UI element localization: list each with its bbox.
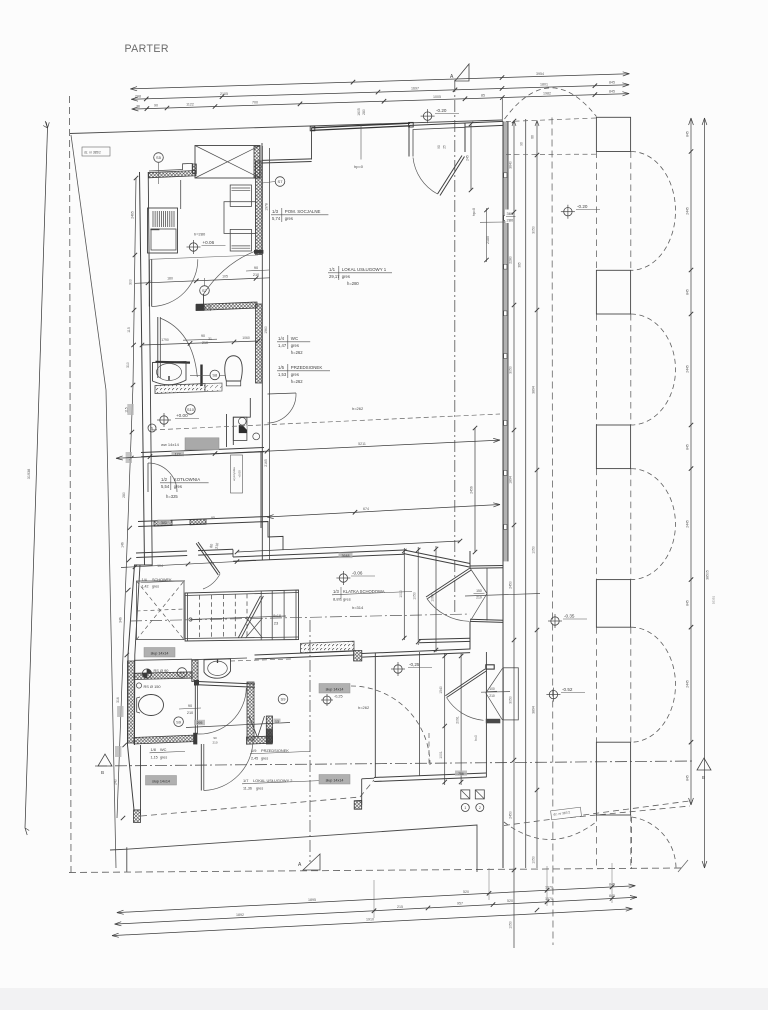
svg-text:h=314: h=314 xyxy=(352,605,364,610)
svg-text:gres: gres xyxy=(256,787,263,791)
survey marker +0.06 in POM xyxy=(189,243,197,251)
svg-text:5211: 5211 xyxy=(358,442,366,446)
svg-text:h=0: h=0 xyxy=(474,735,478,741)
svg-text:2465: 2465 xyxy=(130,211,134,219)
shaft top line xyxy=(134,659,192,660)
svg-text:29,17: 29,17 xyxy=(329,274,340,279)
svg-text:104: 104 xyxy=(157,564,163,568)
bottom dim chain 3 xyxy=(112,909,632,936)
svg-text:115: 115 xyxy=(127,327,131,333)
svg-text:h=262: h=262 xyxy=(291,379,303,384)
S9b symbol przedsionek xyxy=(278,694,288,704)
svg-text:1/9: 1/9 xyxy=(251,748,256,753)
bottom-left building corner hatch xyxy=(134,810,141,823)
svg-text:88: 88 xyxy=(531,135,535,139)
svg-text:1/2: 1/2 xyxy=(161,477,168,482)
svg-text:1050: 1050 xyxy=(509,921,513,929)
corridor header line xyxy=(150,255,258,259)
svg-text:2445: 2445 xyxy=(686,207,690,215)
dim label 302 xyxy=(158,520,171,525)
svg-text:90: 90 xyxy=(254,266,258,270)
svg-text:słup 14x14: słup 14x14 xyxy=(151,652,169,656)
svg-text:2091: 2091 xyxy=(456,716,460,724)
entrance alcove top-right xyxy=(409,123,465,157)
building left outer wall xyxy=(128,172,145,810)
svg-text:520: 520 xyxy=(507,899,513,903)
big room vertical dim xyxy=(474,428,476,552)
arcade dashed verticals between pillars xyxy=(595,152,597,271)
section marker B right xyxy=(697,758,711,770)
svg-text:h=262: h=262 xyxy=(358,705,370,710)
svg-text:90: 90 xyxy=(201,334,205,338)
S9 symbol xyxy=(174,717,184,727)
S7 symbol lower xyxy=(200,286,210,296)
svg-text:1050: 1050 xyxy=(532,546,536,554)
svg-text:1982: 1982 xyxy=(543,92,551,96)
svg-text:słup 14x14: słup 14x14 xyxy=(152,780,170,784)
svg-text:302: 302 xyxy=(161,521,167,525)
building top wall left hatched xyxy=(149,171,197,178)
svg-text:845: 845 xyxy=(686,289,690,295)
svg-text:1050: 1050 xyxy=(532,856,536,864)
svg-text:1,47: 1,47 xyxy=(278,343,287,348)
svg-text:WC: WC xyxy=(291,336,298,341)
svg-text:2445: 2445 xyxy=(686,680,690,688)
window label 360/280 right xyxy=(505,210,517,224)
small circle marker -0.25b xyxy=(323,696,331,704)
left wall dimension chain xyxy=(117,178,136,818)
section line A xyxy=(454,80,456,612)
door 2 arc xyxy=(204,250,258,294)
drain symbol xyxy=(142,669,151,678)
svg-text:-0,25: -0,25 xyxy=(334,695,343,699)
right wall white mullion notches xyxy=(504,173,507,178)
survey marker +-0.00 przedsionek xyxy=(160,416,168,424)
svg-text:2105: 2105 xyxy=(220,92,228,96)
dim label 172 xyxy=(172,451,185,456)
arcade inner face line xyxy=(525,119,527,868)
svg-text:dz. nr 385/2: dz. nr 385/2 xyxy=(84,151,101,155)
lokal2 bottom dashed line xyxy=(141,797,360,816)
przedsionek 1/5 left door xyxy=(157,317,159,378)
svg-text:316: 316 xyxy=(116,697,120,703)
svg-text:S10: S10 xyxy=(187,407,195,412)
vestibule bottom wall xyxy=(419,638,470,639)
hatched wall right of WC 1/4 xyxy=(256,304,263,383)
przedsionek bottom wall hatched xyxy=(247,736,273,744)
svg-text:3050: 3050 xyxy=(509,696,513,704)
svg-text:80: 80 xyxy=(209,544,214,549)
wall between left rooms and big room xyxy=(261,146,263,560)
WC 1/8 left wall hatched xyxy=(128,661,135,743)
porch step rect xyxy=(503,668,518,720)
annex box left wall xyxy=(374,653,376,778)
svg-text:gres: gres xyxy=(291,372,299,377)
svg-text:100: 100 xyxy=(489,687,495,691)
svg-text:WC: WC xyxy=(160,747,167,752)
svg-text:S8: S8 xyxy=(212,373,218,378)
svg-text:2,45: 2,45 xyxy=(251,757,258,761)
right dim chain x537 xyxy=(536,121,538,869)
svg-text:wyczystka: wyczystka xyxy=(232,467,236,481)
svg-text:2450: 2450 xyxy=(509,581,513,589)
svg-text:385: 385 xyxy=(518,262,522,268)
svg-text:h=280: h=280 xyxy=(194,232,206,237)
top arcade arch dashed xyxy=(505,88,597,119)
svg-text:2445: 2445 xyxy=(686,520,690,528)
stair X cross xyxy=(248,619,263,638)
far right dim chain 1 xyxy=(690,118,692,805)
lokal2 left outline walls xyxy=(361,779,363,805)
wall chunk hatched xyxy=(354,651,362,662)
survey -0.25 annex xyxy=(394,665,402,673)
svg-text:1070: 1070 xyxy=(545,897,553,901)
flue symbol half-black xyxy=(239,425,247,433)
svg-text:PRZEDSIONEK: PRZEDSIONEK xyxy=(291,365,323,370)
dashed property boundary left xyxy=(70,96,72,872)
top window vertical dim xyxy=(470,124,472,190)
kotlownia east wall step xyxy=(261,522,283,551)
svg-text:3640: 3640 xyxy=(509,161,513,169)
annex bottom wall xyxy=(374,773,486,778)
site boundary top line xyxy=(70,120,502,134)
threshold below stairs hatched xyxy=(301,641,355,653)
dash-dot line through stairs xyxy=(130,614,470,621)
svg-text:845: 845 xyxy=(609,90,615,94)
big room dim line 1 xyxy=(116,440,500,458)
WC 1/8 door leaf + arc xyxy=(200,744,202,791)
svg-text:210: 210 xyxy=(476,596,482,600)
svg-text:S9: S9 xyxy=(281,697,287,702)
svg-text:3894: 3894 xyxy=(532,386,536,394)
wall stub cap dark xyxy=(196,304,204,311)
svg-text:210: 210 xyxy=(187,711,193,715)
svg-text:520: 520 xyxy=(463,890,469,894)
parcel label dz. nr 387/2 xyxy=(551,807,582,820)
stair break line xyxy=(238,596,260,637)
svg-text:845: 845 xyxy=(609,882,615,886)
lokal2 door leaf xyxy=(445,669,485,696)
svg-text:S9: S9 xyxy=(180,670,186,675)
window jamb blocks xyxy=(310,126,315,131)
svg-text:B: B xyxy=(101,770,104,775)
svg-text:hp=0: hp=0 xyxy=(472,208,476,216)
svg-text:RS Ø 150: RS Ø 150 xyxy=(144,684,162,689)
svg-text:150: 150 xyxy=(476,589,482,593)
hall dim line y727 xyxy=(186,723,290,728)
svg-text:POM. SOCJALNE: POM. SOCJALNE xyxy=(285,209,321,214)
wall WC/przedsionek hatched xyxy=(247,682,254,740)
annex dims vertical xyxy=(444,653,446,785)
svg-text:845: 845 xyxy=(609,894,615,898)
svg-text:95: 95 xyxy=(211,516,215,520)
svg-text:2456: 2456 xyxy=(470,486,474,494)
svg-text:2450: 2450 xyxy=(509,811,513,819)
slup boxes gray xyxy=(144,648,175,658)
svg-text:90: 90 xyxy=(213,736,217,740)
door 1/5 to big room xyxy=(268,393,297,394)
svg-text:-0.52: -0.52 xyxy=(562,687,573,692)
table xyxy=(224,202,256,234)
h=262 dashed ceiling line xyxy=(152,414,500,430)
chair 2 xyxy=(230,229,251,251)
svg-text:8x18: 8x18 xyxy=(273,614,281,618)
WC 1/4 sink xyxy=(153,362,187,385)
svg-text:85: 85 xyxy=(481,94,485,98)
svg-text:hp=0: hp=0 xyxy=(354,164,364,169)
wall end cap dark xyxy=(254,250,263,254)
svg-text:845: 845 xyxy=(686,444,690,450)
kotlownia bottom wall hatches xyxy=(154,520,172,526)
svg-text:23: 23 xyxy=(274,621,279,626)
svg-text:1001: 1001 xyxy=(439,751,443,759)
kotlownia door to stair hall xyxy=(198,542,220,574)
svg-text:280: 280 xyxy=(362,109,366,115)
shaft corner vertical hatch xyxy=(192,660,198,682)
svg-text:+0.00: +0.00 xyxy=(238,470,242,478)
niche top line xyxy=(192,658,247,660)
svg-text:90: 90 xyxy=(154,104,158,108)
parcel label dz. nr 385/2 xyxy=(82,147,110,156)
svg-text:1894: 1894 xyxy=(509,476,513,484)
kotlownia bottom wall xyxy=(138,517,268,522)
svg-text:1/4: 1/4 xyxy=(142,578,147,582)
svg-text:1895: 1895 xyxy=(308,898,316,902)
big room bottom wall xyxy=(233,550,404,557)
bottom quarter arc dashed xyxy=(632,817,676,869)
survey marker -0.06 xyxy=(339,574,347,582)
svg-text:845: 845 xyxy=(609,81,615,85)
svg-text:845: 845 xyxy=(686,775,690,781)
svg-text:ww 14x14: ww 14x14 xyxy=(161,442,180,447)
svg-text:310: 310 xyxy=(126,362,130,368)
big room dim line 2 xyxy=(267,505,500,518)
dim label 3648 xyxy=(237,541,460,552)
threshold hatched strip below WC xyxy=(155,384,205,394)
svg-text:3050: 3050 xyxy=(509,366,513,374)
thresholds dark xyxy=(486,665,494,669)
annex top wall xyxy=(362,649,470,654)
top dimension chain line 2 xyxy=(131,85,629,100)
stair hall top wall xyxy=(136,551,187,553)
sidewalk outline xyxy=(127,825,477,872)
svg-text:gres: gres xyxy=(174,484,182,489)
svg-text:2280: 2280 xyxy=(509,256,513,264)
svg-text:146: 146 xyxy=(121,542,125,548)
svg-text:1/4: 1/4 xyxy=(278,336,285,341)
svg-text:756: 756 xyxy=(458,772,464,776)
svg-text:210: 210 xyxy=(212,741,217,745)
bottom witness lines xyxy=(488,868,490,900)
S7 symbol top xyxy=(275,177,285,187)
WC south wall to przedsionek xyxy=(198,682,255,685)
svg-text:210: 210 xyxy=(208,305,212,311)
svg-text:1/7: 1/7 xyxy=(243,778,248,783)
svg-text:700: 700 xyxy=(252,101,258,105)
parcel boundary slanted line xyxy=(71,135,116,868)
svg-text:25: 25 xyxy=(443,145,447,149)
dashed property boundary bottom xyxy=(69,868,682,873)
dashed line x553 xyxy=(552,118,553,946)
solid treads xyxy=(260,591,262,640)
hatched wall right of POM.SOCJALNE xyxy=(256,161,263,255)
svg-text:31: 31 xyxy=(208,337,212,341)
svg-text:słup 14x14: słup 14x14 xyxy=(326,779,344,783)
vestibule slant wall xyxy=(404,550,470,564)
annex right wall xyxy=(485,652,487,777)
door centerline xyxy=(481,691,510,694)
svg-text:1/1: 1/1 xyxy=(329,267,336,272)
entrance right wall pieces xyxy=(469,551,471,568)
slanted dashed lines to B right xyxy=(504,801,693,826)
chimney shaft enclosure xyxy=(233,398,250,445)
survey marker -0.20 top xyxy=(423,112,431,120)
S5 symbol xyxy=(154,153,164,163)
svg-text:gres: gres xyxy=(285,216,293,221)
svg-text:31938: 31938 xyxy=(27,469,31,480)
lokal2 big dashed door arc xyxy=(351,686,430,765)
WC 1/8 sink xyxy=(204,659,231,678)
svg-text:845: 845 xyxy=(686,600,690,606)
svg-text:845: 845 xyxy=(686,131,690,137)
svg-text:210: 210 xyxy=(253,273,259,277)
svg-text:1960: 1960 xyxy=(264,326,268,334)
svg-text:90: 90 xyxy=(437,145,441,149)
wall recess right of canopy xyxy=(261,143,263,161)
svg-text:-0.20: -0.20 xyxy=(436,108,447,113)
stair hall top dim line xyxy=(121,561,256,568)
svg-text:5,74: 5,74 xyxy=(272,216,281,221)
section marker B left xyxy=(98,754,112,766)
svg-text:8,87: 8,87 xyxy=(333,597,342,602)
svg-text:1122: 1122 xyxy=(186,103,194,107)
kotlownia right wall xyxy=(260,452,262,528)
svg-text:300: 300 xyxy=(128,279,132,285)
big window band top wall xyxy=(312,123,411,128)
dashed treads xyxy=(199,595,201,639)
przedsionek door V leaf xyxy=(249,716,258,738)
svg-text:215: 215 xyxy=(397,905,403,909)
svg-text:-0.20: -0.20 xyxy=(577,204,588,209)
kotlownia door arc xyxy=(147,463,149,492)
stair hall right dims xyxy=(403,548,405,640)
top pillar block xyxy=(596,117,630,151)
svg-text:11,36: 11,36 xyxy=(243,787,252,791)
svg-text:38505: 38505 xyxy=(706,570,710,580)
svg-text:1697: 1697 xyxy=(411,86,419,90)
small circle on wall xyxy=(148,424,156,432)
svg-text:gres: gres xyxy=(261,757,268,761)
svg-text:1605: 1605 xyxy=(357,108,361,116)
svg-text:5,54: 5,54 xyxy=(161,484,170,489)
building top wall right xyxy=(465,121,503,123)
entrance door leaf xyxy=(426,568,470,597)
svg-text:295: 295 xyxy=(197,721,203,725)
svg-text:2445: 2445 xyxy=(686,365,690,373)
rotated shaft label xyxy=(231,455,243,493)
corner hatch small xyxy=(354,801,362,809)
bottom dim chain 2 xyxy=(115,897,637,924)
top-left step outline xyxy=(149,163,192,172)
svg-text:RS Ø 90: RS Ø 90 xyxy=(154,668,170,673)
arcade dashed horials top xyxy=(506,118,596,122)
survey marker -0.52 xyxy=(549,690,557,698)
staircase xyxy=(185,590,298,641)
top dimension chain line 1 xyxy=(130,74,629,89)
svg-text:1050: 1050 xyxy=(413,592,417,600)
annex top dim labels xyxy=(455,771,467,776)
bottom dim chain 1 xyxy=(117,886,635,913)
svg-text:KOTŁOWNIA: KOTŁOWNIA xyxy=(174,477,200,482)
svg-text:+0.00: +0.00 xyxy=(176,413,188,418)
survey marker -0.35 xyxy=(551,617,559,625)
svg-text:1,42: 1,42 xyxy=(142,585,149,589)
svg-text:-0,25: -0,25 xyxy=(409,662,420,667)
canopy X-box xyxy=(195,146,260,179)
svg-text:S9: S9 xyxy=(176,719,182,724)
svg-text:1/8: 1/8 xyxy=(151,747,156,752)
door frame converge lines xyxy=(470,568,487,594)
WC 1/8 bottom wall hatched xyxy=(134,735,196,744)
left overall dimension line 31938 xyxy=(25,128,48,828)
svg-text:S7: S7 xyxy=(278,179,284,184)
svg-text:105: 105 xyxy=(222,274,228,278)
svg-text:S7: S7 xyxy=(202,288,208,293)
svg-text:gres: gres xyxy=(342,274,350,279)
svg-text:245: 245 xyxy=(466,155,470,161)
arcade pillars xyxy=(596,270,630,314)
svg-text:słup 14x14: słup 14x14 xyxy=(326,688,344,692)
svg-text:1/3: 1/3 xyxy=(272,209,279,214)
svg-text:1892: 1892 xyxy=(236,913,244,917)
annex inner partition xyxy=(419,652,421,776)
WC 1/8 top wall hatched band xyxy=(134,672,192,680)
svg-text:3954: 3954 xyxy=(536,72,544,76)
przedsionek top wall xyxy=(255,651,355,655)
svg-text:280: 280 xyxy=(122,492,126,498)
svg-text:+0.06: +0.06 xyxy=(203,240,215,245)
svg-text:1910: 1910 xyxy=(366,918,374,922)
svg-text:210: 210 xyxy=(202,341,208,345)
svg-text:1801: 1801 xyxy=(540,83,548,87)
S8 leaders xyxy=(190,374,210,376)
svg-text:PARTER: PARTER xyxy=(125,43,169,55)
entrance door swing arc xyxy=(427,599,469,622)
svg-text:10351: 10351 xyxy=(712,595,716,604)
svg-text:gres: gres xyxy=(291,343,299,348)
svg-text:1005: 1005 xyxy=(433,95,441,99)
right dim chain x514 xyxy=(513,121,515,949)
top dimension chain line 3 xyxy=(132,94,629,110)
svg-text:h=262: h=262 xyxy=(352,406,364,411)
svg-text:2: 2 xyxy=(479,806,481,810)
svg-text:90: 90 xyxy=(188,704,192,708)
svg-text:1/5: 1/5 xyxy=(278,365,285,370)
arcade dashed arcs xyxy=(631,152,676,271)
svg-text:1978: 1978 xyxy=(265,203,269,211)
svg-text:LOKAL USŁUGOWY 1: LOKAL USŁUGOWY 1 xyxy=(342,267,387,272)
stair direction line xyxy=(191,616,287,620)
svg-text:1/3: 1/3 xyxy=(333,589,339,594)
left chain dark label boxes xyxy=(127,404,133,415)
svg-text:S5: S5 xyxy=(156,155,162,160)
door centerline right xyxy=(465,594,540,597)
svg-text:h=280: h=280 xyxy=(347,281,359,286)
svg-text:210: 210 xyxy=(489,694,495,698)
WC 1/8 toilet xyxy=(139,695,164,716)
lokal2 door swing arc xyxy=(447,698,484,721)
witness line top right corner xyxy=(501,98,503,121)
